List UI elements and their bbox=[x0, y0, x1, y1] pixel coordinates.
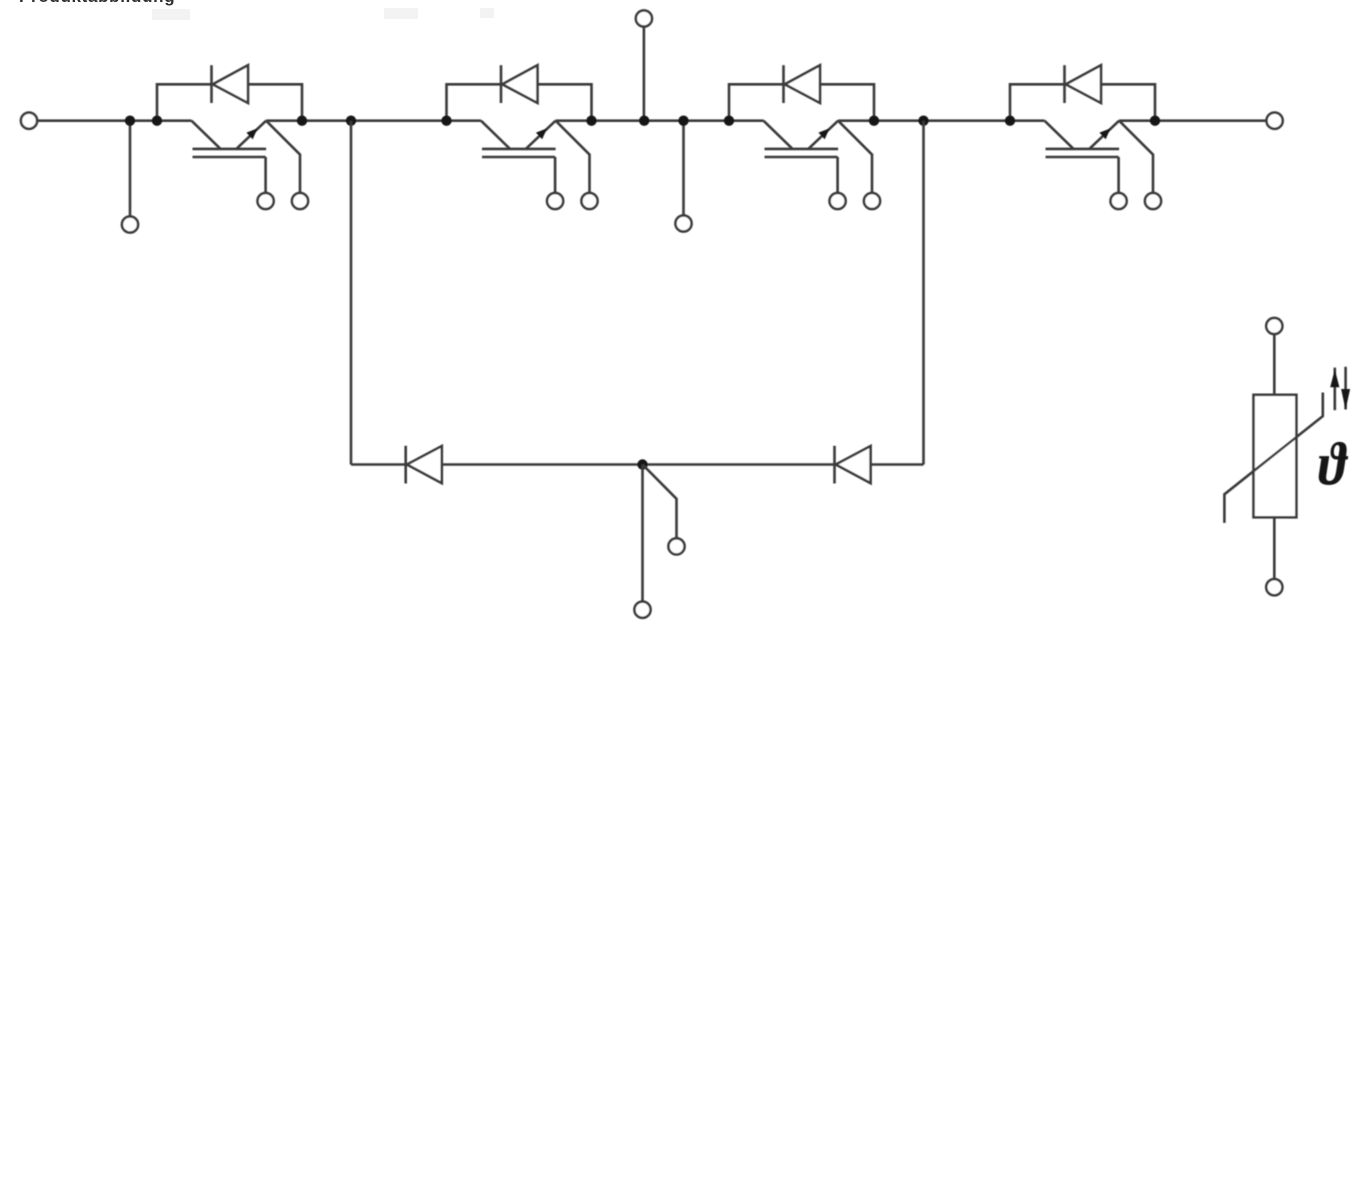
terminal aux collector pin of T3 bbox=[675, 215, 691, 231]
diode D4 cathode bar bbox=[1063, 65, 1066, 103]
wire aux emitter lead of T1 bbox=[266, 121, 300, 193]
wire aux emitter lead of T2 bbox=[556, 121, 590, 193]
wire free-wheel diode D2 branch (up-over-down loop) bbox=[447, 84, 592, 120]
wire aux emitter lead of T3 bbox=[838, 121, 872, 193]
transistor T3 collector lead (diagonal) bbox=[764, 121, 793, 149]
wire main bus segment 4 (T3 emitter to T4 collector) bbox=[838, 119, 1044, 122]
diode D2 cathode bar bbox=[500, 65, 503, 103]
terminal aux pin 5 bbox=[668, 538, 684, 554]
transistor T4 gate bar bbox=[1046, 156, 1119, 159]
transistor T1 emitter arrowhead bbox=[246, 128, 257, 139]
transistor T1 emitter diagonal bbox=[236, 121, 266, 149]
wire aux collector lead of T3 bbox=[682, 121, 685, 216]
diode D5 cathode bar bbox=[404, 446, 407, 484]
transistor T1 body bar bbox=[193, 148, 267, 151]
node junction J5 bbox=[441, 116, 451, 126]
transistor T4 emitter diagonal bbox=[1089, 121, 1119, 149]
node bottom center junction bbox=[637, 459, 647, 469]
wire gate lead of T1 bbox=[264, 157, 267, 193]
faint jpeg ghost marks near top bbox=[152, 9, 190, 20]
terminal gate pin of T3 bbox=[830, 193, 846, 209]
wire gate lead of T4 bbox=[1117, 157, 1120, 193]
terminal thermistor bottom pin bbox=[1266, 579, 1282, 595]
transistor T3 emitter diagonal bbox=[808, 121, 838, 149]
diode D2 triangle (points left) bbox=[502, 65, 537, 103]
node junction J2 bbox=[152, 116, 162, 126]
wire bottom terminal lead (long) bbox=[641, 465, 644, 602]
diode D4 triangle (points left) bbox=[1066, 65, 1101, 103]
thermistor R1 variability diagonal bbox=[1224, 393, 1322, 523]
diode D5 triangle (points left) bbox=[407, 446, 442, 483]
thermistor R1 body rectangle bbox=[1254, 395, 1297, 518]
terminal pin 1 (left AC input) bbox=[21, 113, 37, 129]
node junction J7 bbox=[639, 116, 649, 126]
transistor T1 gate bar bbox=[193, 156, 266, 159]
terminal pin 3 (top DC+) bbox=[636, 10, 652, 26]
wire main bus segment 2 (T1 emitter to T2 collector) bbox=[266, 119, 481, 122]
wire free-wheel diode D3 branch (up-over-down loop) bbox=[729, 84, 874, 120]
wire aux emitter lead of T4 bbox=[1119, 121, 1153, 193]
terminal thermistor top pin bbox=[1266, 318, 1282, 334]
terminal pin 4 (bottom DC-) bbox=[634, 602, 650, 618]
wire free-wheel diode D4 branch (up-over-down loop) bbox=[1010, 84, 1155, 120]
diode D1 triangle (points left) bbox=[213, 65, 248, 103]
node junction J13 bbox=[1150, 116, 1160, 126]
transistor T3 gate bar bbox=[765, 156, 838, 159]
transistor T4 collector lead (diagonal) bbox=[1045, 121, 1074, 149]
clipped heading text "Produktabbilder" bbox=[19, 0, 175, 5]
wire bottom aux lead (diagonal+vertical) bbox=[643, 465, 677, 539]
svg-text:ϑ: ϑ bbox=[1318, 431, 1348, 499]
wire aux collector lead of T1 bbox=[129, 121, 132, 217]
transistor T3 body bar bbox=[765, 148, 839, 151]
node junction J4 bbox=[346, 116, 356, 126]
transistor T4 emitter arrowhead bbox=[1099, 128, 1110, 139]
terminal aux emitter pin of T2 bbox=[581, 193, 597, 209]
wire gate lead of T2 bbox=[554, 157, 557, 193]
diode D3 triangle (points left) bbox=[785, 65, 820, 103]
terminal aux emitter pin of T3 bbox=[864, 193, 880, 209]
wire gate lead of T3 bbox=[836, 157, 839, 193]
transistor T4 body bar bbox=[1046, 148, 1120, 151]
node junction J3 bbox=[297, 116, 307, 126]
transistor T2 collector lead (diagonal) bbox=[481, 121, 510, 149]
wire main bus segment 3 (T2 emitter to T3 collector) bbox=[556, 119, 764, 122]
transistor T3 emitter arrowhead bbox=[818, 128, 829, 139]
node junction J1 bbox=[125, 116, 135, 126]
transistor T2 emitter arrowhead bbox=[536, 128, 547, 139]
wire free-wheel diode D1 branch (up-over-down loop) bbox=[157, 84, 302, 120]
terminal gate pin of T4 bbox=[1111, 193, 1127, 209]
diode D6 cathode bar bbox=[833, 446, 836, 484]
wire thermistor bottom lead bbox=[1273, 517, 1276, 579]
transistor T1 collector lead (diagonal) bbox=[192, 121, 221, 149]
terminal aux collector pin of T1 bbox=[122, 216, 138, 232]
node junction J8 bbox=[678, 116, 688, 126]
node junction J9 bbox=[724, 116, 734, 126]
wire main collector bus segment 1 (left terminal to T1 collector) bbox=[37, 119, 192, 122]
diode D6 triangle (points left) bbox=[836, 446, 871, 483]
terminal aux emitter pin of T1 bbox=[292, 193, 308, 209]
transistor T2 body bar bbox=[482, 148, 556, 151]
terminal gate pin of T2 bbox=[547, 193, 563, 209]
transistor T2 gate bar bbox=[482, 156, 555, 159]
label temperature up-arrow bbox=[1334, 368, 1337, 411]
node junction J10 bbox=[869, 116, 879, 126]
label theta (temperature symbol) bbox=[1318, 431, 1348, 499]
wire right drop to bottom diode rail bbox=[922, 121, 925, 465]
terminal gate pin of T1 bbox=[258, 193, 274, 209]
wire bottom diode rail bbox=[351, 463, 924, 466]
terminal aux emitter pin of T4 bbox=[1145, 193, 1161, 209]
node junction J6 bbox=[586, 116, 596, 126]
transistor T2 emitter diagonal bbox=[526, 121, 556, 149]
node junction J12 bbox=[1005, 116, 1015, 126]
terminal pin 2 (right AC output) bbox=[1267, 113, 1283, 129]
wire left drop to bottom diode rail bbox=[350, 121, 353, 465]
label resistance down-arrow bbox=[1344, 367, 1347, 410]
diode D1 cathode bar bbox=[210, 65, 213, 103]
wire top terminal lead bbox=[643, 27, 646, 121]
wire thermistor top lead bbox=[1273, 334, 1276, 395]
wire main bus segment 5 (T4 emitter to right terminal) bbox=[1119, 119, 1266, 122]
diode D3 cathode bar bbox=[782, 65, 785, 103]
node junction J11 bbox=[918, 116, 928, 126]
